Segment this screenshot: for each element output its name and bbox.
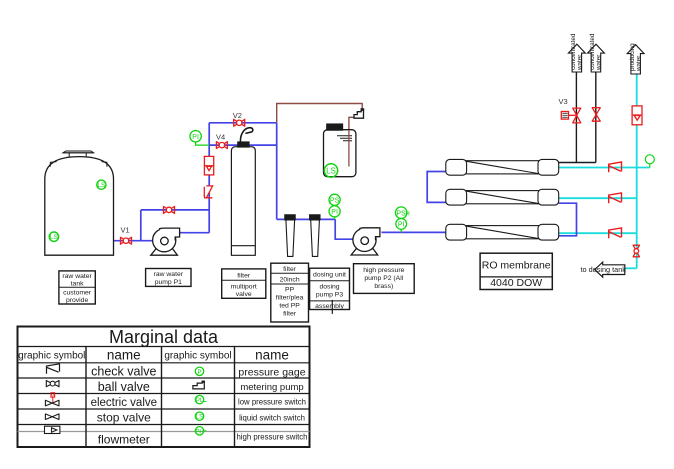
svg-text:LS: LS <box>326 166 336 175</box>
svg-text:PI: PI <box>331 209 338 216</box>
svg-text:valve: valve <box>236 291 252 298</box>
label PP filter <box>271 263 309 322</box>
svg-text:ted PP: ted PP <box>279 303 300 310</box>
valve V4 ball <box>216 141 227 149</box>
svg-text:H: H <box>405 212 409 218</box>
svg-text:V1: V1 <box>121 226 130 235</box>
svg-text:metering pump: metering pump <box>240 382 303 393</box>
valve V3 electric on concentrate riser 1 <box>561 108 581 123</box>
rotameter FI2 product <box>632 106 642 125</box>
wire concentrate riser 2 <box>595 72 597 163</box>
wire permeate vessel M1 <box>559 167 650 169</box>
label RO membrane <box>480 253 552 289</box>
svg-text:filter: filter <box>283 266 297 273</box>
svg-text:pressure gage: pressure gage <box>238 367 305 379</box>
leader line through assembly <box>331 300 333 314</box>
strainer triangle <box>346 166 352 171</box>
svg-text:provide: provide <box>66 297 89 304</box>
svg-text:tank: tank <box>71 281 84 288</box>
svg-text:4040 DOW: 4040 DOW <box>490 277 542 289</box>
wire permeate vessel M3 <box>559 232 637 234</box>
flow sensor FS1 <box>204 186 213 198</box>
wire right downcomer <box>276 123 278 220</box>
wire to dosing tank leg <box>625 267 637 269</box>
dosing tank dip tube <box>348 130 350 167</box>
svg-text:stop valve: stop valve <box>97 411 151 425</box>
metering pump MP1 <box>354 108 364 118</box>
svg-text:LS: LS <box>50 234 59 241</box>
dosing tank <box>324 124 356 177</box>
pressure gauge PI1 <box>190 131 209 146</box>
label raw water pump P1 <box>146 269 191 287</box>
pressure switch PSH / gauge PI stack at pump P2 outlet <box>395 207 407 233</box>
svg-text:PH: PH <box>195 429 203 435</box>
svg-text:PP: PP <box>285 287 295 294</box>
legend headers <box>18 348 289 363</box>
svg-text:PL: PL <box>196 398 204 404</box>
check valve CV3 <box>609 228 622 238</box>
svg-text:PI: PI <box>192 134 199 141</box>
svg-text:dosing unit: dosing unit <box>313 272 346 279</box>
RO vessel M1 <box>446 159 559 175</box>
pressure switch PS low / gauge PI stack at PP header <box>329 194 340 219</box>
svg-text:electric valve: electric valve <box>91 397 157 409</box>
tank level switch LS upper <box>97 180 106 189</box>
arrow to dosing tank <box>595 262 625 277</box>
wire dosing suction <box>349 117 354 166</box>
svg-text:assembly: assembly <box>315 303 344 310</box>
svg-text:LS: LS <box>196 415 203 421</box>
legend metering pump symbol <box>193 381 205 389</box>
svg-text:to dosing tank: to dosing tank <box>581 265 627 274</box>
check valve CV1 <box>609 162 622 172</box>
PIPES-BLUE <box>114 123 577 241</box>
wire dosing discharge <box>277 104 363 123</box>
PIPES-BROWN dosing <box>277 104 363 167</box>
wire concentrate riser 1 <box>575 72 577 163</box>
svg-text:flowmeter: flowmeter <box>98 433 150 447</box>
svg-text:liquid switch switch: liquid switch switch <box>239 414 305 423</box>
svg-text:customer: customer <box>63 290 92 297</box>
raw water tank T1 <box>45 151 114 255</box>
valve bypass ball <box>164 206 175 214</box>
arrow concentrated water 2 <box>588 44 605 72</box>
legend stop valve symbol <box>45 414 59 420</box>
wire V4 line <box>209 144 277 146</box>
legend pressure gage symbol <box>195 367 203 375</box>
svg-text:pump P1: pump P1 <box>155 279 182 286</box>
svg-text:raw water: raw water <box>62 273 92 280</box>
legend names right <box>236 367 307 442</box>
PP filter cartridge A <box>285 215 295 257</box>
svg-text:graphic symbol: graphic symbol <box>18 351 85 362</box>
svg-text:V2: V2 <box>233 111 242 120</box>
svg-text:water: water <box>636 56 643 72</box>
svg-text:filter: filter <box>237 272 251 279</box>
svg-text:name: name <box>255 348 289 363</box>
PIPES-BLACK concentrate <box>559 72 596 163</box>
check valve CV2 <box>609 193 622 203</box>
valve V1 ball <box>121 237 132 245</box>
label raw water tank <box>59 271 95 304</box>
wire bypass line <box>141 209 209 211</box>
wire vessel M2 to M1 loop <box>427 172 446 203</box>
wire product riser <box>636 74 638 268</box>
svg-text:filter: filter <box>283 311 297 318</box>
tank level switch LS lower <box>49 232 58 241</box>
svg-text:pump P3: pump P3 <box>316 292 343 299</box>
svg-text:high pressure switch: high pressure switch <box>236 433 307 442</box>
valve V2 ball <box>234 119 245 127</box>
rotameter FI1 <box>204 156 213 175</box>
multiport filter column F1 <box>231 128 255 256</box>
svg-text:M: M <box>51 393 55 398</box>
RO vessel M3 <box>446 224 559 240</box>
legend flowmeter symbol <box>45 426 60 433</box>
wire pump bypass riser <box>140 210 142 241</box>
wire V2 line <box>209 122 277 124</box>
svg-text:low pressure switch: low pressure switch <box>238 398 306 407</box>
label filter multiport valve <box>222 269 266 298</box>
arrow concentrated water 1 <box>568 44 585 72</box>
svg-text:brass): brass) <box>374 283 393 290</box>
PP filter cartridge B <box>310 215 320 257</box>
legend low pressure switch symbol <box>195 395 206 403</box>
wire tank outlet to pump P1 inlet <box>114 240 153 242</box>
wire flowmeter riser <box>208 123 210 233</box>
svg-text:P: P <box>197 370 201 376</box>
pump P2 high pressure <box>351 228 380 255</box>
wire vessel M3 to M2 loop <box>559 203 577 236</box>
PIPES-CYAN permeate <box>559 74 650 268</box>
svg-text:Marginal data: Marginal data <box>109 327 219 347</box>
product pressure gauge <box>645 155 654 168</box>
wire permeate vessel M2 <box>559 197 637 199</box>
svg-text:V3: V3 <box>559 97 568 106</box>
legend check valve symbol <box>47 364 60 374</box>
legend names left <box>91 365 157 447</box>
svg-text:pump P2 (All: pump P2 (All <box>364 275 403 282</box>
svg-text:V4: V4 <box>216 133 225 142</box>
svg-text:high pressure: high pressure <box>363 267 404 274</box>
svg-text:PS: PS <box>330 198 340 205</box>
legend ball valve symbol <box>46 380 59 387</box>
svg-text:check valve: check valve <box>91 365 156 379</box>
dosing tank level switch LS <box>324 164 337 177</box>
svg-text:20inch: 20inch <box>280 277 300 284</box>
wire drop to pump P2 <box>335 219 352 239</box>
wire pump P1 outlet <box>180 232 210 234</box>
svg-text:RO membrane: RO membrane <box>482 260 551 272</box>
arrow producing water <box>627 45 644 74</box>
legend liquid switch symbol <box>195 412 203 420</box>
svg-text:filter/plea: filter/plea <box>276 295 304 302</box>
pump P1 <box>151 228 180 255</box>
legend electric valve symbol <box>51 393 55 404</box>
svg-text:water: water <box>577 55 584 71</box>
legend high pressure switch symbol <box>195 427 206 435</box>
label dosing unit <box>310 268 350 309</box>
svg-text:dosing: dosing <box>319 284 339 291</box>
wire PP filter header <box>277 218 336 220</box>
svg-text:graphic symbol: graphic symbol <box>164 351 231 362</box>
valve stop on concentrate riser 2 <box>592 108 601 122</box>
svg-text:ball valve: ball valve <box>98 380 150 394</box>
svg-text:water: water <box>596 55 603 71</box>
RO vessel M2 <box>446 189 559 205</box>
svg-text:name: name <box>107 348 141 363</box>
legend table Marginal data <box>18 327 310 448</box>
svg-text:LS: LS <box>97 182 106 189</box>
svg-text:raw water: raw water <box>154 271 184 278</box>
label high pressure pump P2 <box>354 264 415 294</box>
svg-text:PI: PI <box>398 222 405 229</box>
wire pump P2 outlet to vessel M3 <box>382 231 446 233</box>
wire concentrate header <box>559 162 596 164</box>
valve product ball <box>633 245 640 257</box>
svg-text:multiport: multiport <box>231 283 257 290</box>
